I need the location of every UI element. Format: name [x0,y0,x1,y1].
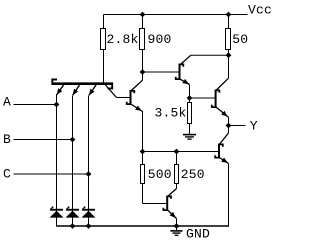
svg-text:Vcc: Vcc [248,3,272,18]
svg-text:GND: GND [186,227,210,242]
svg-text:B: B [3,132,11,147]
svg-text:A: A [3,95,11,110]
svg-text:2.8k: 2.8k [107,32,139,47]
svg-text:Y: Y [250,119,258,134]
svg-text:C: C [3,167,11,182]
svg-text:3.5k: 3.5k [155,106,187,121]
svg-text:500: 500 [148,167,172,182]
svg-text:250: 250 [181,167,205,182]
svg-text:900: 900 [148,32,172,47]
svg-text:50: 50 [232,32,248,47]
